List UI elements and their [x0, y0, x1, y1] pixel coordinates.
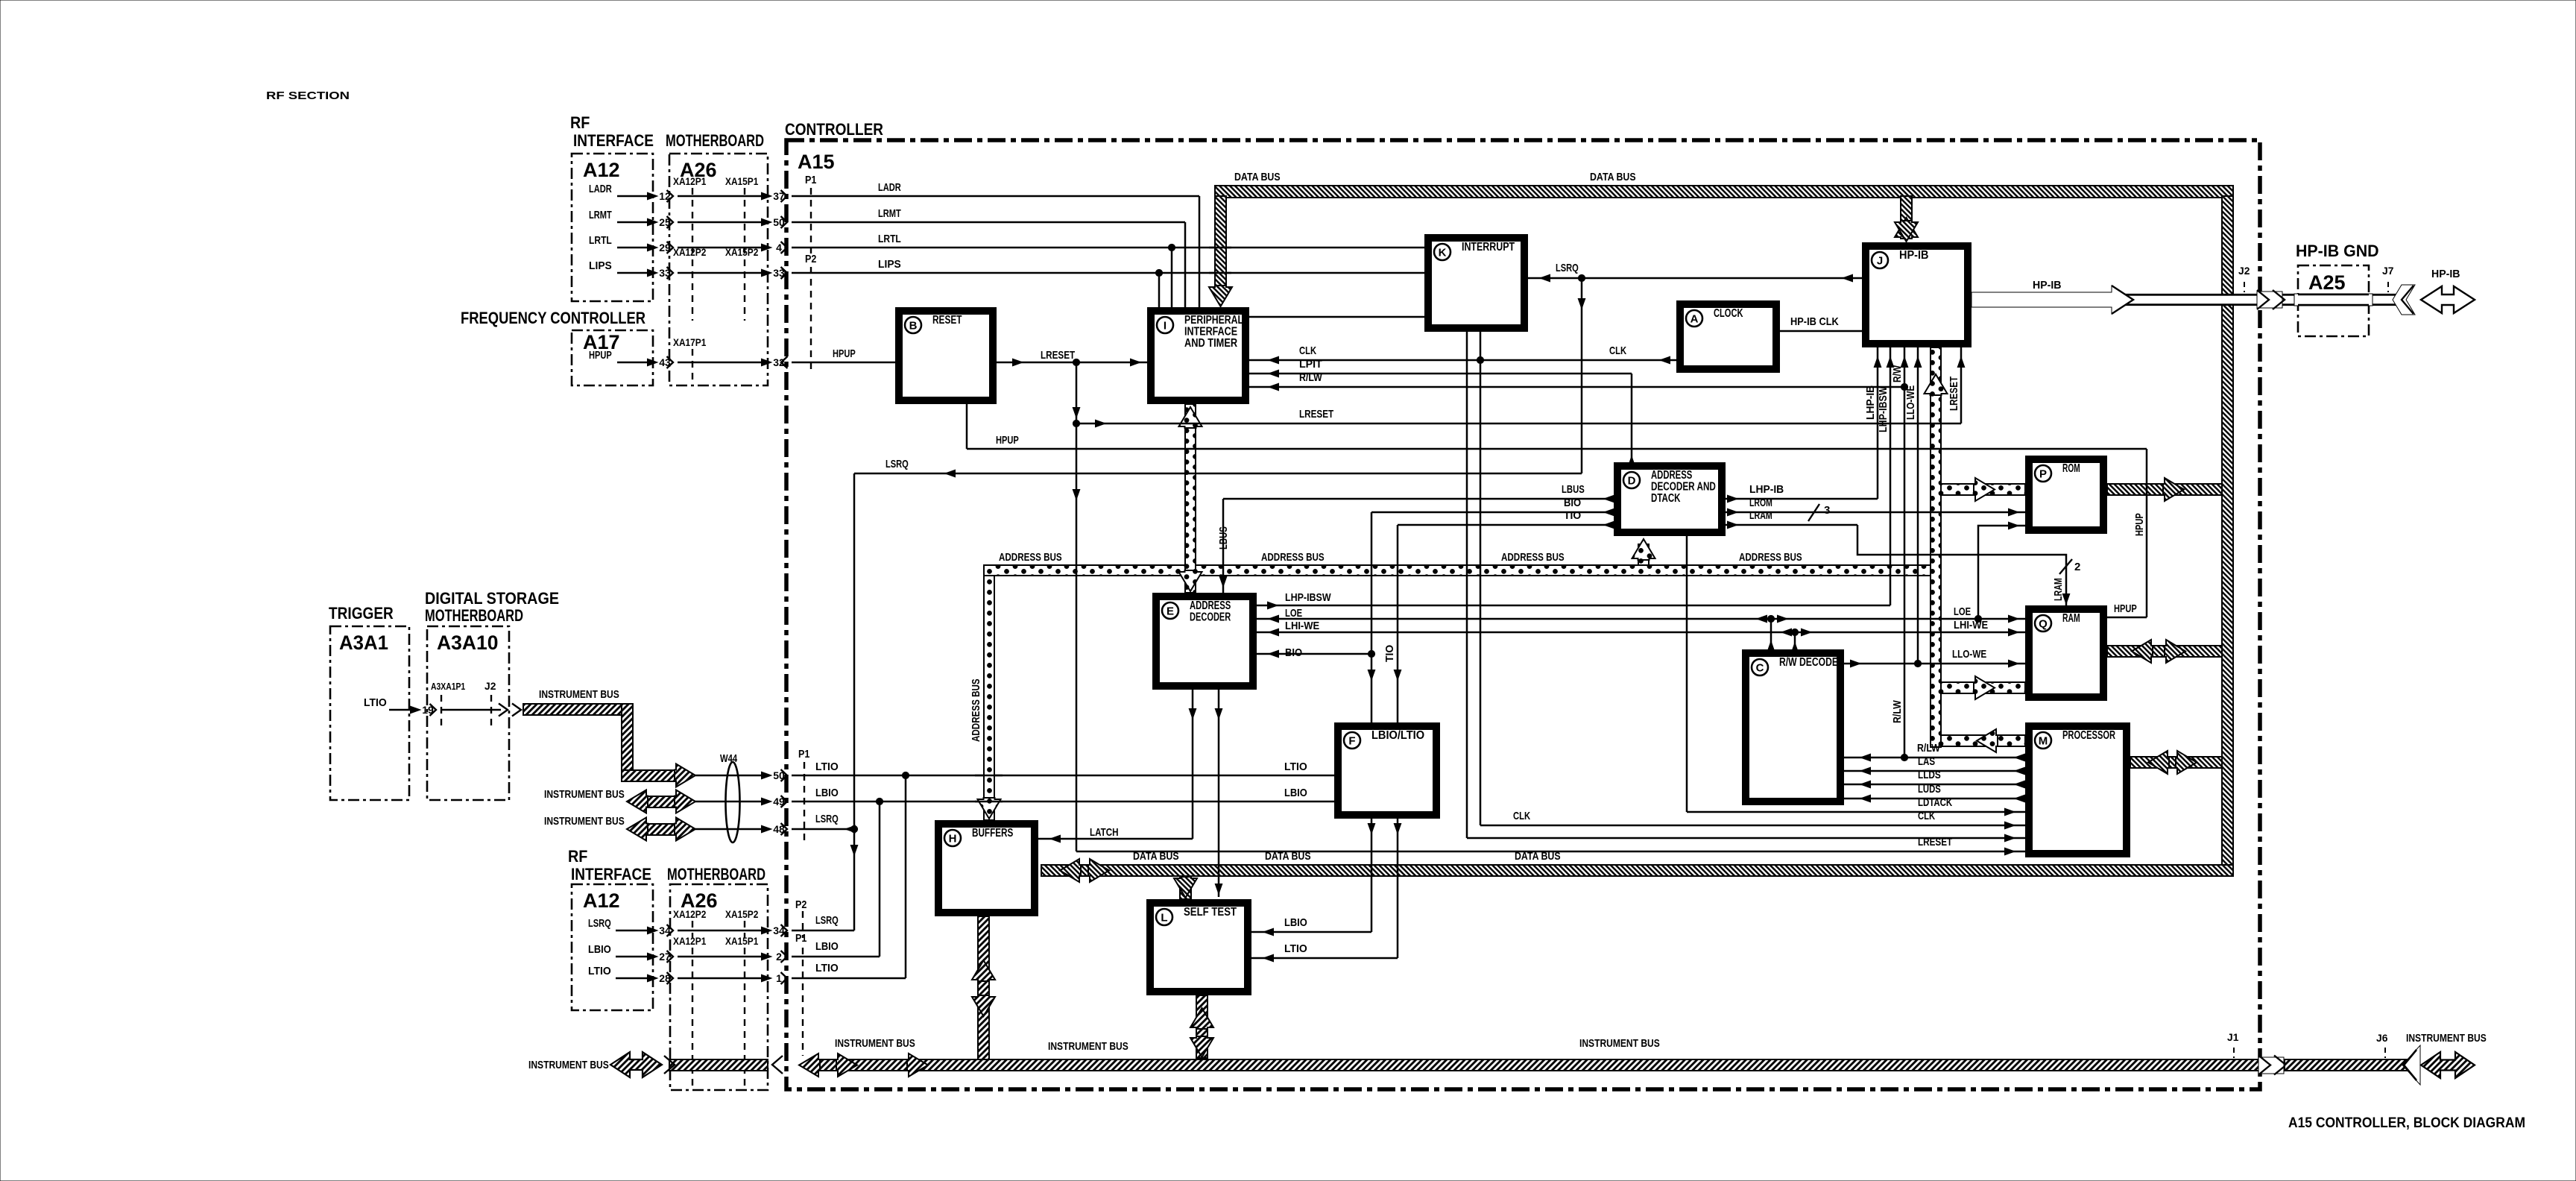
svg-text:LHI-WE: LHI-WE — [1954, 619, 1988, 632]
instrument bus segment right of J1 — [2285, 1059, 2413, 1071]
svg-text:ADDRESS BUS: ADDRESS BUS — [1261, 551, 1325, 564]
svg-text:LRESET: LRESET — [1041, 349, 1075, 362]
svg-text:INSTRUMENT BUS: INSTRUMENT BUS — [544, 788, 625, 801]
svg-text:M: M — [2039, 735, 2048, 748]
svg-text:BUFFERS: BUFFERS — [972, 827, 1013, 840]
svg-text:ADDRESS BUS: ADDRESS BUS — [1739, 551, 1802, 564]
svg-text:INSTRUMENT BUS: INSTRUMENT BUS — [539, 688, 619, 701]
HP-IB double arrow right end — [2421, 286, 2475, 313]
wire LTIO F to SELF TEST — [1397, 819, 1399, 958]
block K INTERRUPT — [1428, 238, 1524, 328]
svg-text:XA15P1: XA15P1 — [725, 176, 759, 187]
cable W44 — [726, 762, 740, 843]
wire LDTACK — [1686, 536, 1688, 812]
svg-text:I: I — [1164, 320, 1167, 333]
svg-text:FREQUENCY CONTROLLER: FREQUENCY CONTROLLER — [461, 309, 645, 327]
board A26 dashed box (lower) — [670, 884, 768, 1090]
svg-text:CLOCK: CLOCK — [1714, 307, 1743, 320]
instrument bus double arrow right end — [2421, 1052, 2475, 1078]
svg-text:P1: P1 — [805, 174, 816, 186]
svg-text:BIO: BIO — [1285, 646, 1302, 659]
wire LAS — [1844, 770, 2025, 772]
wire LRESET branch right to HP-IB — [1076, 423, 1961, 425]
connector XA15P2 dashed line (lower) — [744, 921, 745, 938]
address bus left vertical to BUFFERS — [984, 576, 994, 820]
svg-text:LLO-WE: LLO-WE — [1952, 648, 1986, 661]
connector XA15P2 dashed line — [744, 259, 745, 321]
address bus leg ROM — [1941, 484, 2025, 495]
wire R/LW PI to R/W trunk — [1249, 386, 1904, 388]
wire LBIO riser — [879, 801, 881, 957]
svg-text:LSRQ: LSRQ — [815, 813, 839, 825]
svg-text:INSTRUMENT BUS: INSTRUMENT BUS — [1579, 1037, 1660, 1050]
svg-text:LRAM: LRAM — [1749, 509, 1772, 522]
svg-text:HPUP: HPUP — [2133, 513, 2146, 536]
svg-text:A12: A12 — [583, 159, 620, 181]
svg-text:A3A10: A3A10 — [437, 632, 499, 654]
svg-text:K: K — [1439, 247, 1447, 259]
data bus stub to HP-IB block — [1901, 196, 1912, 224]
svg-text:DATA BUS: DATA BUS — [1234, 171, 1281, 183]
svg-text:HPUP: HPUP — [996, 434, 1019, 447]
svg-text:HP-IB: HP-IB — [1899, 249, 1929, 262]
svg-text:HPUP: HPUP — [833, 347, 856, 360]
wire LHP-IBSW — [1257, 605, 1890, 607]
svg-text:A25: A25 — [2308, 271, 2346, 294]
svg-text:LBIO/LTIO: LBIO/LTIO — [1371, 729, 1424, 742]
svg-text:HPUP: HPUP — [2114, 602, 2137, 615]
svg-text:RAM: RAM — [2062, 612, 2080, 625]
wire C R/W decode top stubs — [1770, 619, 1772, 649]
svg-text:RF: RF — [568, 847, 587, 866]
svg-text:P2: P2 — [805, 253, 816, 265]
wire CLK trunk to PROCESSOR — [1480, 360, 1482, 825]
svg-text:LHP-IB: LHP-IB — [1864, 385, 1877, 420]
connector P1 dashed line (upper) — [810, 188, 812, 253]
block L SELF TEST — [1150, 903, 1248, 992]
svg-text:J2: J2 — [2238, 265, 2250, 277]
svg-text:LTIO: LTIO — [364, 696, 387, 709]
svg-text:ADDRESS BUS: ADDRESS BUS — [1501, 551, 1565, 564]
svg-text:LRTL: LRTL — [589, 234, 612, 247]
svg-text:SELF TEST: SELF TEST — [1184, 906, 1237, 919]
svg-text:32: 32 — [773, 356, 785, 368]
svg-text:LRAM: LRAM — [2052, 578, 2065, 601]
svg-text:LBIO: LBIO — [815, 940, 839, 953]
svg-text:A3A1: A3A1 — [339, 632, 388, 654]
chevrons at J1 — [2258, 1057, 2284, 1074]
connector A3XA1P1 dashed line — [441, 695, 442, 727]
svg-text:ADDRESS BUS: ADDRESS BUS — [970, 678, 982, 742]
instrument bus main run — [799, 1054, 820, 1077]
svg-text:DECODER: DECODER — [1190, 611, 1231, 624]
block J HP-IB — [1866, 246, 1968, 344]
wire LHI-WE — [1257, 632, 2025, 634]
instrument bus leg SELF TEST bottom — [1196, 995, 1207, 1058]
wire LSRQ vertical and lower run — [1581, 278, 1583, 473]
block H BUFFERS — [938, 824, 1035, 913]
wire LTIO crossing address bus — [975, 775, 1003, 777]
wire PI to K — [1249, 316, 1424, 318]
svg-text:H: H — [949, 833, 957, 845]
svg-text:LTIO: LTIO — [1284, 942, 1307, 955]
svg-text:PERIPHERAL: PERIPHERAL — [1184, 314, 1243, 327]
svg-text:LBIO: LBIO — [1284, 916, 1307, 929]
wire LBIO crossing address bus — [975, 801, 1003, 803]
svg-text:INSTRUMENT BUS: INSTRUMENT BUS — [2406, 1032, 2487, 1045]
svg-text:LRESET: LRESET — [1948, 377, 1960, 411]
svg-text:DECODER AND: DECODER AND — [1651, 481, 1716, 494]
svg-text:ADDRESS BUS: ADDRESS BUS — [999, 551, 1062, 564]
wire LOE — [1257, 618, 2025, 620]
svg-text:LADR: LADR — [878, 181, 901, 194]
svg-text:W44: W44 — [720, 752, 738, 765]
instrument bus double arrow left — [610, 1052, 662, 1077]
svg-text:LRESET: LRESET — [1299, 408, 1333, 421]
connector P1 dashed line (W44) — [804, 762, 805, 843]
wire K to CLK junction — [1480, 332, 1482, 360]
svg-text:INSTRUMENT BUS: INSTRUMENT BUS — [544, 815, 625, 828]
block Q RAM — [2029, 609, 2103, 697]
wire LOE riser to ROM — [1978, 526, 2025, 619]
svg-text:LBIO: LBIO — [815, 787, 839, 799]
board A25 dashed box — [2298, 265, 2369, 336]
wire E to data bus stub — [1218, 690, 1220, 897]
svg-text:LLDS: LLDS — [1918, 769, 1941, 781]
svg-text:RF SECTION: RF SECTION — [266, 89, 350, 102]
chevron at instrument bus right end — [2402, 1045, 2420, 1085]
svg-text:L: L — [1161, 912, 1167, 925]
block F LBIO/LTIO — [1338, 726, 1436, 815]
svg-text:R/LW: R/LW — [1917, 742, 1940, 755]
svg-text:B: B — [909, 320, 918, 333]
svg-text:P1: P1 — [798, 748, 809, 760]
svg-text:F: F — [1348, 735, 1355, 748]
svg-text:HP-IB GND: HP-IB GND — [2296, 242, 2379, 260]
wire LRTL crossing data bus leg — [1209, 247, 1231, 249]
block P ROM — [2029, 459, 2103, 530]
svg-text:P2: P2 — [795, 898, 806, 911]
svg-text:LRTL: LRTL — [878, 233, 901, 245]
svg-text:C: C — [1756, 662, 1764, 675]
svg-text:LBUS: LBUS — [1562, 483, 1585, 496]
wire LUDS — [1844, 798, 2025, 800]
svg-text:PROCESSOR: PROCESSOR — [2062, 729, 2115, 742]
chevrons at J2 — [2257, 292, 2282, 308]
svg-text:MOTHERBOARD: MOTHERBOARD — [667, 865, 765, 884]
connector XA17P1 dashed line — [692, 349, 693, 385]
svg-text:LBIO: LBIO — [588, 943, 611, 956]
svg-text:BIO: BIO — [1564, 497, 1581, 509]
address bus stub to D — [1638, 544, 1649, 565]
svg-text:4: 4 — [776, 242, 782, 253]
svg-text:CLK: CLK — [1299, 344, 1316, 357]
svg-text:LSRQ: LSRQ — [815, 914, 839, 927]
wire LRAM — [1726, 524, 1857, 526]
address bus leg PROCESSOR — [1941, 735, 2025, 746]
svg-text:INTERRUPT: INTERRUPT — [1462, 241, 1515, 253]
svg-text:P1: P1 — [795, 932, 806, 945]
wire LRESET row to PROCESSOR — [1076, 851, 2025, 853]
wire R/LW row processor to C — [1844, 757, 2025, 759]
svg-text:P: P — [2039, 468, 2047, 481]
block E ADDRESS DECODER — [1156, 596, 1253, 686]
svg-text:XA15P1: XA15P1 — [725, 936, 759, 947]
board A3A1 dashed box — [330, 626, 409, 800]
svg-text:LHI-WE: LHI-WE — [1285, 620, 1319, 632]
connector P1 dashed line (lower) — [802, 948, 804, 1056]
svg-text:XA12P2: XA12P2 — [673, 909, 706, 920]
svg-text:LROM: LROM — [1749, 497, 1772, 509]
block D ADDRESS DECODER AND DTACK — [1617, 466, 1722, 532]
svg-text:LTIO: LTIO — [588, 965, 611, 977]
svg-text:3: 3 — [1824, 504, 1830, 517]
board A17 dashed box — [572, 330, 653, 385]
svg-text:A12: A12 — [583, 889, 620, 912]
wire LBIO F to SELF TEST — [1371, 819, 1373, 932]
svg-text:LHP-IBSW: LHP-IBSW — [1877, 386, 1890, 432]
wire LROM — [1726, 511, 2025, 514]
board A3A10 dashed box — [427, 626, 509, 800]
address bus leg RAM — [1941, 682, 2025, 693]
data bus leg RAM — [2107, 646, 2222, 657]
svg-text:AND TIMER: AND TIMER — [1184, 337, 1237, 350]
svg-text:LRMT: LRMT — [589, 209, 612, 221]
data bus leg ROM — [2107, 484, 2222, 495]
wire LBUS D to E riser — [1223, 498, 1614, 500]
svg-text:Q: Q — [2039, 618, 2048, 631]
svg-text:INSTRUMENT BUS: INSTRUMENT BUS — [835, 1037, 915, 1050]
wire HP-IB CLK — [1780, 330, 1862, 333]
svg-text:MOTHERBOARD: MOTHERBOARD — [666, 131, 764, 150]
svg-text:J2: J2 — [484, 680, 496, 692]
wire LRESET B to PI — [997, 362, 1147, 364]
svg-text:CONTROLLER: CONTROLLER — [785, 120, 883, 139]
svg-text:LOE: LOE — [1285, 607, 1302, 620]
svg-text:LAS: LAS — [1918, 755, 1935, 768]
connector XA12P2 dashed line — [692, 259, 693, 321]
svg-text:LLO-WE: LLO-WE — [1904, 385, 1917, 420]
svg-text:R/LW: R/LW — [1891, 700, 1904, 723]
svg-text:LTIO: LTIO — [1284, 760, 1307, 773]
data bus leg SELF TEST top — [1180, 876, 1191, 899]
wire HPUP B bottom to RAM — [966, 404, 968, 449]
svg-text:LHP-IB: LHP-IB — [1749, 483, 1784, 496]
svg-text:LTIO: LTIO — [815, 962, 839, 974]
svg-text:A15: A15 — [798, 151, 835, 173]
instrument bus segment A26 lower — [669, 1059, 768, 1071]
address bus LBUS vertical PI to E — [1185, 404, 1196, 593]
wire LLO-WE — [1844, 663, 2025, 665]
connector XA12P1 dashed line (lower) — [692, 948, 693, 1090]
board A26 dashed box (upper) — [669, 154, 768, 385]
svg-text:D: D — [1628, 475, 1636, 488]
svg-text:RESET: RESET — [932, 314, 962, 327]
svg-text:HP-IB: HP-IB — [2431, 268, 2460, 280]
instrument bus leg BUFFERS — [978, 916, 989, 1059]
svg-text:R/W DECODE: R/W DECODE — [1779, 656, 1838, 669]
wire LSRQ riser to lower connector — [853, 829, 856, 930]
svg-text:LSRQ: LSRQ — [1556, 262, 1579, 274]
svg-text:XA15P2: XA15P2 — [725, 909, 758, 920]
svg-text:ADDRESS: ADDRESS — [1651, 469, 1692, 482]
wire LHP-IB — [1726, 498, 1878, 500]
wire K interrupt line to PROCESSOR — [1466, 332, 1468, 838]
svg-text:J7: J7 — [2382, 265, 2394, 277]
data bus leg PROCESSOR — [2130, 757, 2222, 768]
svg-text:ADDRESS: ADDRESS — [1190, 599, 1231, 612]
block M PROCESSOR — [2029, 726, 2127, 854]
svg-text:TIO: TIO — [1564, 509, 1581, 522]
connector XA15P1 dashed line (lower) — [744, 948, 745, 1090]
svg-text:J1: J1 — [2227, 1031, 2239, 1043]
svg-text:2: 2 — [776, 951, 782, 963]
svg-text:LSRQ: LSRQ — [588, 917, 611, 930]
svg-text:INSTRUMENT BUS: INSTRUMENT BUS — [1048, 1040, 1128, 1053]
controller A15 dash-dot border — [786, 140, 2260, 1089]
HP-IB channel bus from J — [1972, 295, 2402, 304]
svg-text:LOE: LOE — [1954, 605, 1971, 618]
svg-text:LSRQ: LSRQ — [885, 458, 909, 470]
data bus right vertical — [2222, 196, 2233, 870]
svg-text:INTERFACE: INTERFACE — [1184, 326, 1237, 338]
svg-text:CLK: CLK — [1513, 810, 1530, 822]
block C R/W DECODE — [1746, 653, 1840, 801]
svg-text:LUDS: LUDS — [1918, 783, 1941, 796]
svg-text:LATCH: LATCH — [1090, 826, 1119, 839]
svg-text:LTIO: LTIO — [815, 760, 839, 773]
svg-text:HP-IB CLK: HP-IB CLK — [1790, 315, 1839, 328]
wire BIO D to F — [1371, 511, 1614, 514]
svg-text:TRIGGER: TRIGGER — [329, 604, 394, 623]
svg-text:TIO: TIO — [1383, 645, 1396, 662]
svg-text:LADR: LADR — [589, 183, 612, 195]
svg-text:J6: J6 — [2376, 1032, 2388, 1044]
svg-text:LHP-IBSW: LHP-IBSW — [1285, 591, 1331, 604]
svg-text:LRMT: LRMT — [878, 207, 901, 220]
wire LRESET vertical trunk — [1076, 362, 1078, 851]
svg-text:INSTRUMENT BUS: INSTRUMENT BUS — [528, 1059, 609, 1071]
svg-text:XA17P1: XA17P1 — [673, 337, 707, 348]
svg-text:INTERFACE: INTERFACE — [571, 865, 651, 884]
block A CLOCK — [1680, 304, 1776, 369]
wire CLK CLOCK to PI — [1249, 359, 1676, 362]
svg-text:A: A — [1690, 313, 1699, 326]
wire LTIO riser — [905, 775, 907, 978]
svg-text:LIPS: LIPS — [589, 259, 612, 272]
svg-text:XA12P1: XA12P1 — [673, 936, 707, 947]
wire LIPS crossing data bus leg — [1209, 272, 1231, 274]
svg-text:LPIT: LPIT — [1299, 358, 1322, 371]
connector J2 dashed line (trigger) — [490, 695, 492, 727]
wire BIO E — [1257, 653, 1371, 655]
address bus right vertical to HP-IB — [1931, 347, 1941, 747]
board A12 dashed box (lower) — [572, 884, 653, 1010]
connector P2 dashed line (upper) — [810, 267, 812, 373]
wire LPIT — [1249, 373, 1632, 375]
svg-text:LIPS: LIPS — [878, 258, 901, 271]
block I PERIPHERAL INTERFACE AND TIMER — [1151, 311, 1246, 400]
svg-text:2: 2 — [2074, 561, 2080, 573]
svg-text:J: J — [1877, 255, 1883, 268]
wire LTIO row 50 — [762, 772, 772, 779]
wire LLDS — [1844, 784, 2025, 786]
connector XA12P1 dashed line — [692, 188, 693, 253]
connector XA15P1 dashed line — [744, 188, 745, 253]
svg-text:A15 CONTROLLER, BLOCK DIAGRAM: A15 CONTROLLER, BLOCK DIAGRAM — [2288, 1115, 2525, 1131]
block B RESET — [899, 311, 993, 400]
board A12 dashed box (upper) — [572, 154, 653, 301]
svg-text:RF: RF — [570, 113, 590, 132]
svg-text:HP-IB: HP-IB — [2033, 279, 2062, 292]
svg-text:CLK: CLK — [1609, 344, 1626, 357]
svg-text:LBIO: LBIO — [1284, 787, 1307, 799]
svg-text:XA12P1: XA12P1 — [673, 176, 707, 187]
svg-text:A3XA1P1: A3XA1P1 — [431, 681, 465, 692]
wire LSRQ HP-IB to K — [1528, 277, 1862, 280]
svg-text:HPUP: HPUP — [589, 349, 612, 362]
svg-text:R/LW: R/LW — [1299, 371, 1322, 384]
wire R/W vertical trunk — [1904, 347, 1906, 758]
chevron before HP-IB end arrow — [2393, 285, 2415, 315]
svg-text:ROM: ROM — [2062, 462, 2080, 475]
svg-text:DATA BUS: DATA BUS — [1590, 171, 1636, 183]
svg-text:DTACK: DTACK — [1651, 492, 1681, 505]
svg-text:E: E — [1167, 605, 1174, 618]
svg-text:MOTHERBOARD: MOTHERBOARD — [425, 606, 523, 625]
connector P2 dashed line (lower) — [802, 911, 804, 938]
data bus drop to peripheral interface — [1215, 196, 1226, 286]
svg-text:DIGITAL STORAGE: DIGITAL STORAGE — [425, 589, 559, 608]
wire LATCH — [1192, 690, 1194, 839]
wire LTIO to W44 pin 50 — [695, 775, 767, 777]
wire TIO D to F — [1398, 524, 1614, 526]
svg-text:INTERFACE: INTERFACE — [573, 131, 654, 150]
connector XA12P2 dashed line (lower) — [692, 921, 693, 938]
svg-text:1: 1 — [776, 972, 782, 984]
